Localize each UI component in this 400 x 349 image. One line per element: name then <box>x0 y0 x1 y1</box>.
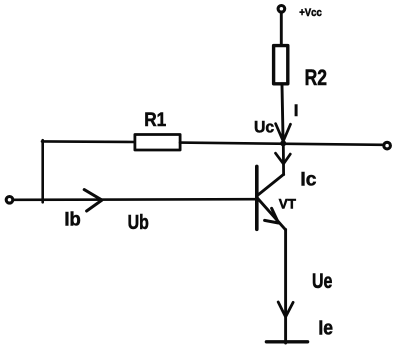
wire main horizontal left (input net to R1) <box>42 140 136 143</box>
wire Vcc to R2 <box>280 12 283 46</box>
resistor R1 <box>135 135 180 151</box>
arrow Ic <box>276 153 291 164</box>
svg-text:Ub: Ub <box>128 212 149 234</box>
svg-text:Ie: Ie <box>318 318 333 340</box>
ground <box>266 340 307 343</box>
terminal input left <box>6 197 13 204</box>
arrow Ib <box>84 190 102 211</box>
wire left vertical <box>41 140 44 202</box>
wire emitter vertical <box>284 230 287 344</box>
svg-text:Ue: Ue <box>312 270 332 293</box>
wire R1 to output terminal <box>180 143 384 145</box>
terminal +Vcc <box>278 6 285 13</box>
svg-text:R2: R2 <box>305 65 327 90</box>
svg-text:VT: VT <box>279 196 297 211</box>
wire collector vertical <box>282 143 285 174</box>
svg-text:Ic: Ic <box>300 170 316 191</box>
resistor R2 <box>274 46 288 84</box>
svg-text:Uc: Uc <box>254 118 274 137</box>
transistor VT emitter arrow <box>265 208 279 223</box>
wire base horizontal <box>13 198 257 201</box>
transistor VT collector diagonal <box>257 174 284 195</box>
transistor VT base bar <box>255 166 259 229</box>
svg-text:R1: R1 <box>144 110 166 131</box>
arrow Ie <box>278 302 293 317</box>
arrow I (current into node) <box>276 124 291 142</box>
node C junction dot <box>280 140 286 146</box>
svg-text:I: I <box>294 101 299 120</box>
transistor VT emitter diagonal <box>257 198 286 230</box>
wire R2 to node C <box>282 85 283 142</box>
svg-text:+Vcc: +Vcc <box>299 7 322 19</box>
terminal output right <box>384 142 391 149</box>
svg-text:Ib: Ib <box>64 210 80 231</box>
